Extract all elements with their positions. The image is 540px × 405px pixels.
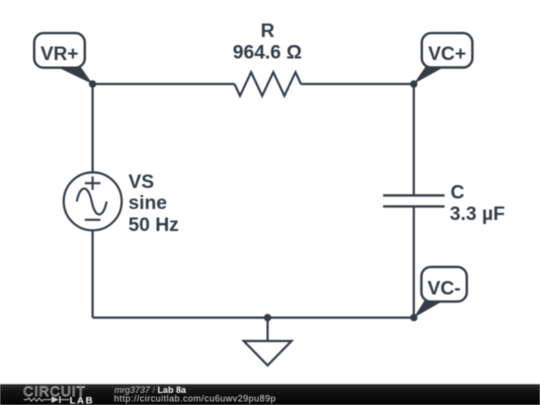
svg-text:VR+: VR+ xyxy=(40,44,78,65)
svg-text:3.3 µF: 3.3 µF xyxy=(450,204,505,225)
svg-text:VC+: VC+ xyxy=(428,44,466,65)
svg-text:sine: sine xyxy=(128,193,167,214)
svg-text:VC-: VC- xyxy=(427,278,460,299)
svg-text:http://circuitlab.com/cu6uwv29: http://circuitlab.com/cu6uwv29pu89p xyxy=(114,394,276,404)
svg-text:VS: VS xyxy=(128,172,154,193)
svg-text:50 Hz: 50 Hz xyxy=(128,215,178,236)
svg-text:964.6 Ω: 964.6 Ω xyxy=(233,43,302,64)
svg-text:C: C xyxy=(451,182,465,203)
svg-text:R: R xyxy=(261,21,275,42)
svg-text:LAB: LAB xyxy=(70,395,95,405)
